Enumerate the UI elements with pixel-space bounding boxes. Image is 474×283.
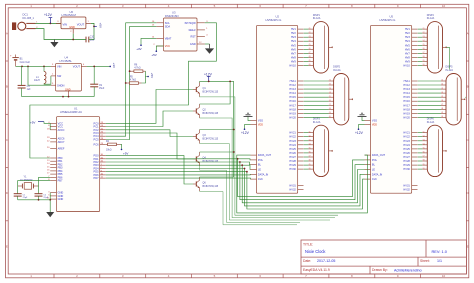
svg-text:#0: #0 xyxy=(309,64,311,66)
svg-text:HV2: HV2 xyxy=(405,31,411,35)
wire: GND pins bridge xyxy=(49,193,51,199)
svg-text:VOUT: VOUT xyxy=(73,65,81,69)
wire: Q1 emitter into anode lane xyxy=(200,97,338,216)
svg-text:VSS: VSS xyxy=(258,119,263,123)
svg-text:HV7: HV7 xyxy=(291,51,297,55)
svg-text:#1: #1 xyxy=(423,131,425,133)
svg-text:#3: #3 xyxy=(441,88,443,90)
svg-text:HV6: HV6 xyxy=(405,47,411,51)
svg-text:10uH: 10uH xyxy=(34,79,40,82)
svg-text:+12V: +12V xyxy=(241,131,250,135)
wire: U3 VCC to +5V flag xyxy=(156,46,163,51)
svg-text:#9: #9 xyxy=(441,112,443,114)
svg-text:#6: #6 xyxy=(329,100,331,102)
svg-text:PD7: PD7 xyxy=(94,176,100,180)
svg-text:#4: #4 xyxy=(309,40,311,42)
wire: base riser PC1 to Q2 xyxy=(106,111,193,127)
svg-text:AchilleMerendino: AchilleMerendino xyxy=(394,268,422,272)
svg-text:#5: #5 xyxy=(423,44,425,46)
svg-text:#2: #2 xyxy=(309,135,311,137)
svg-text:VDD: VDD xyxy=(258,124,263,127)
svg-text:#3: #3 xyxy=(329,88,331,90)
svg-text:DATA_IN: DATA_IN xyxy=(258,172,269,176)
svg-text:HV24: HV24 xyxy=(403,143,410,147)
svg-text:AREF: AREF xyxy=(58,146,65,150)
title block xyxy=(301,240,466,274)
power flag +5V at U6 output xyxy=(94,23,103,28)
svg-text:DS3231SN: DS3231SN xyxy=(165,14,179,18)
wire: HV outputs to tube cathodes xyxy=(418,29,423,65)
title block texts xyxy=(303,243,448,273)
regulator U6 L78L05ACZ xyxy=(56,10,91,34)
svg-text:HV11: HV11 xyxy=(404,79,411,83)
svg-text:+5V: +5V xyxy=(99,23,103,28)
svg-text:22pF: 22pF xyxy=(43,197,48,199)
svg-text:VCC: VCC xyxy=(165,45,170,48)
MCU U1 ATMEGA328P-AU xyxy=(47,107,106,212)
svg-text:U1: U1 xyxy=(74,107,78,111)
svg-text:SHDN: SHDN xyxy=(57,83,64,87)
svg-text:VDD: VDD xyxy=(372,124,377,127)
ground symbol (input section) xyxy=(50,40,58,48)
svg-text:U4: U4 xyxy=(65,56,69,60)
svg-text:HV23: HV23 xyxy=(403,139,410,143)
svg-text:HV22: HV22 xyxy=(403,135,410,139)
svg-text:HV10: HV10 xyxy=(289,64,296,68)
nixie tube DISP4 IN-12A xyxy=(422,14,446,73)
svg-text:HV14: HV14 xyxy=(403,91,410,95)
svg-text:A: A xyxy=(6,31,8,35)
power flag +12V at VDD xyxy=(355,128,364,134)
svg-text:GND: GND xyxy=(190,42,196,46)
svg-text:#1: #1 xyxy=(441,80,443,82)
svg-text:HV29: HV29 xyxy=(403,163,410,167)
svg-text:PC5: PC5 xyxy=(94,138,100,142)
svg-text:Sheet:: Sheet: xyxy=(420,259,430,263)
svg-text:15uF: 15uF xyxy=(99,88,105,90)
svg-text:#9: #9 xyxy=(309,164,311,166)
wire: U2 DATA_OUT chain to U5 xyxy=(237,155,368,213)
svg-text:HV13: HV13 xyxy=(403,87,410,91)
inductor L1 10uH xyxy=(34,66,51,84)
svg-text:VSS: VSS xyxy=(372,119,377,123)
svg-text:BC847CW,115: BC847CW,115 xyxy=(203,112,219,115)
svg-text:#4: #4 xyxy=(441,92,443,94)
svg-text:HV25: HV25 xyxy=(289,147,296,151)
svg-text:IN-12A: IN-12A xyxy=(446,69,454,72)
nixie tube DISP1 IN-12A xyxy=(308,14,332,73)
svg-text:2017-12-05: 2017-12-05 xyxy=(317,259,335,263)
power flag +3V at VBAT xyxy=(136,44,142,50)
svg-text:32kHz: 32kHz xyxy=(188,28,196,32)
capacitor C9 15uF xyxy=(90,66,105,96)
svg-text:#5: #5 xyxy=(441,96,443,98)
svg-text:+5V: +5V xyxy=(150,73,154,78)
wire: rail branch to Q4 collector xyxy=(200,151,234,153)
svg-text:HV13: HV13 xyxy=(289,87,296,91)
svg-text:HV4: HV4 xyxy=(405,39,411,43)
svg-text:#8: #8 xyxy=(309,56,311,58)
svg-text:HV1: HV1 xyxy=(405,27,411,31)
svg-text:POL: POL xyxy=(372,158,378,162)
transistor Q1 BC847CW xyxy=(193,83,219,97)
svg-text:Drawn By:: Drawn By: xyxy=(372,268,388,272)
crystal Y1 16.384MHz xyxy=(18,176,39,190)
svg-text:#5: #5 xyxy=(309,148,311,150)
svg-text:HV5622PJ-G: HV5622PJ-G xyxy=(266,18,282,22)
svg-text:SDA: SDA xyxy=(165,24,171,28)
svg-text:DATA_IN: DATA_IN xyxy=(372,172,383,176)
svg-text:HV14: HV14 xyxy=(289,91,296,95)
svg-text:DATA_OUT: DATA_OUT xyxy=(372,153,386,157)
nixie tube DISP6 IN-12A xyxy=(422,117,446,176)
capacitor C1 22pF xyxy=(14,186,28,200)
svg-text:SW: SW xyxy=(57,74,62,78)
svg-text:HV32: HV32 xyxy=(289,187,296,191)
svg-text:#2: #2 xyxy=(329,84,331,86)
transistor Q6 BC847CW xyxy=(193,177,219,191)
svg-text:#0: #0 xyxy=(441,116,443,118)
svg-text:BC847CW,115: BC847CW,115 xyxy=(203,160,219,163)
svg-text:HV28: HV28 xyxy=(403,159,410,163)
svg-text:#7: #7 xyxy=(309,156,311,158)
svg-text:REV: 1.0: REV: 1.0 xyxy=(432,249,448,254)
svg-text:E: E xyxy=(6,244,8,248)
svg-text:#2: #2 xyxy=(423,32,425,34)
ground symbol at VSS xyxy=(358,113,367,120)
svg-text:HV9: HV9 xyxy=(291,60,297,64)
svg-text:DATA_OUT: DATA_OUT xyxy=(258,153,272,157)
svg-text:L78L05ACZ: L78L05ACZ xyxy=(62,13,77,17)
svg-text:HV27: HV27 xyxy=(289,155,296,159)
resistor R5 4.7k xyxy=(125,75,142,84)
wire: Q6 emitter into anode lane xyxy=(200,191,297,225)
svg-text:VOUT: VOUT xyxy=(77,22,85,26)
power flag +3V at boost output xyxy=(109,63,116,68)
svg-text:C10: C10 xyxy=(90,36,95,38)
svg-text:#3: #3 xyxy=(309,140,311,142)
node: +12V junction xyxy=(50,23,52,25)
svg-text:HV18: HV18 xyxy=(289,107,296,111)
svg-text:10uF: 10uF xyxy=(90,40,96,42)
wire: R4 to +5V xyxy=(121,144,122,149)
svg-text:#2: #2 xyxy=(423,135,425,137)
wire: base riser PC2 to Q3 xyxy=(106,130,193,137)
svg-text:HV28: HV28 xyxy=(289,159,296,163)
svg-text:#0: #0 xyxy=(423,64,425,66)
wire: base riser PC3 to Q4 xyxy=(106,133,193,159)
wire: crystal to PB7 xyxy=(18,181,51,186)
node: VOUT junction xyxy=(93,26,95,28)
svg-text:#1: #1 xyxy=(309,28,311,30)
svg-text:4.7kΩ: 4.7kΩ xyxy=(134,67,141,70)
svg-text:HV12: HV12 xyxy=(403,83,410,87)
svg-text:E: E xyxy=(467,244,469,248)
svg-text:HV31: HV31 xyxy=(289,183,296,187)
svg-text:HV24: HV24 xyxy=(289,143,296,147)
svg-text:PB7: PB7 xyxy=(58,179,63,183)
power flag +5V at pullups xyxy=(147,73,154,78)
svg-text:B: B xyxy=(467,85,469,89)
svg-text:#3: #3 xyxy=(423,36,425,38)
wire: U4 VOUT to +3V flag xyxy=(87,65,110,67)
svg-text:#6: #6 xyxy=(423,152,425,154)
transistor Q3 BC847CW xyxy=(193,130,219,144)
wire: +12V collector rail xyxy=(200,80,234,82)
wire: SDA net xyxy=(106,26,157,139)
svg-text:GND: GND xyxy=(65,88,71,91)
svg-text:VIN: VIN xyxy=(57,65,61,69)
svg-text:HV2: HV2 xyxy=(291,31,297,35)
nixie tube DISP2 IN-12A xyxy=(329,66,353,125)
svg-text:4.7kΩ: 4.7kΩ xyxy=(130,79,137,82)
svg-text:HV8: HV8 xyxy=(291,55,297,59)
svg-text:#5: #5 xyxy=(423,148,425,150)
power flag +12V at VDD xyxy=(241,128,250,134)
wire: rail branch to Q2 collector xyxy=(200,81,231,104)
svg-text:Date:: Date: xyxy=(303,259,311,263)
ground symbol below MCU xyxy=(46,212,54,217)
svg-text:HV31: HV31 xyxy=(403,183,410,187)
wire: HV outputs to tube cathodes xyxy=(304,81,329,117)
svg-text:#2: #2 xyxy=(441,84,443,86)
svg-text:HV15: HV15 xyxy=(403,95,410,99)
wire: data bundle lanes to U5 control pins xyxy=(238,159,365,209)
svg-text:1/1: 1/1 xyxy=(437,259,442,263)
svg-text:#6: #6 xyxy=(441,100,443,102)
svg-text:IN-12A: IN-12A xyxy=(427,17,435,20)
wire: HV outputs to tube cathodes xyxy=(418,133,423,169)
svg-text:#1: #1 xyxy=(309,131,311,133)
wire: DISP5 anode stub extension xyxy=(465,96,466,98)
wire: pullups join to +5V xyxy=(146,71,148,76)
svg-text:AVCC: AVCC xyxy=(58,128,65,132)
connector DC1 DC-005 barrel jack xyxy=(12,13,38,31)
svg-text:+3V: +3V xyxy=(112,63,116,68)
svg-text:#0: #0 xyxy=(309,168,311,170)
svg-text:HV5: HV5 xyxy=(291,43,297,47)
svg-text:HV19: HV19 xyxy=(289,111,296,115)
svg-text:B: B xyxy=(6,85,8,89)
capacitor C2 22pF xyxy=(35,186,49,200)
svg-text:IN-12A: IN-12A xyxy=(313,17,321,20)
wire: Q4 emitter into anode lane xyxy=(200,166,300,222)
svg-text:HV20: HV20 xyxy=(289,115,296,119)
svg-text:#5: #5 xyxy=(329,96,331,98)
svg-text:HV5622PJ-G: HV5622PJ-G xyxy=(380,18,396,22)
svg-text:LTC3525L: LTC3525L xyxy=(60,59,73,63)
svg-text:#0: #0 xyxy=(329,116,331,118)
wire: DC jack to U6 VIN xyxy=(36,22,62,24)
power flag +5V at MCU VCC xyxy=(30,121,44,125)
svg-text:VBAT: VBAT xyxy=(165,36,172,40)
boost converter U4 LTC3525L xyxy=(51,56,87,97)
svg-text:DC-005_1: DC-005_1 xyxy=(23,17,35,20)
HV driver U2 HV5622PJ-G xyxy=(251,15,304,194)
resistor R4 10k xyxy=(106,141,121,152)
svg-text:ATMEGA328P-AU: ATMEGA328P-AU xyxy=(60,110,82,114)
svg-text:HV10: HV10 xyxy=(403,64,410,68)
svg-text:EasyEDA V4.11.9: EasyEDA V4.11.9 xyxy=(303,268,330,272)
svg-text:HV21: HV21 xyxy=(289,131,296,135)
wire: HV outputs to tube cathodes xyxy=(304,29,309,65)
svg-text:HV30: HV30 xyxy=(289,167,296,171)
svg-text:+12V: +12V xyxy=(44,13,53,17)
svg-text:22pF: 22pF xyxy=(23,197,28,199)
RTC U3 DS3231SN xyxy=(152,11,208,51)
wire: +5V to VCC pins xyxy=(44,122,50,124)
svg-text:HV19: HV19 xyxy=(403,111,410,115)
svg-text:1uF: 1uF xyxy=(27,89,32,91)
svg-text:U3: U3 xyxy=(172,11,176,15)
svg-text:GND: GND xyxy=(69,26,75,29)
wire: rail branch to Q3 collector xyxy=(200,129,234,131)
svg-text:#1: #1 xyxy=(423,28,425,30)
svg-text:LE: LE xyxy=(372,168,375,172)
transistor Q4 BC847CW xyxy=(193,152,219,166)
wire: crystal caps ground run xyxy=(18,199,51,201)
wire: data lines MCU PD1-PD7 to U2 control pins xyxy=(106,159,251,179)
svg-text:A: A xyxy=(467,31,469,35)
svg-text:HV15: HV15 xyxy=(289,95,296,99)
svg-text:#8: #8 xyxy=(441,108,443,110)
power flag +12V (input) xyxy=(44,13,53,23)
wire: DISP4 anode hook xyxy=(447,47,450,69)
svg-text:#8: #8 xyxy=(309,160,311,162)
svg-text:HV26: HV26 xyxy=(403,151,410,155)
svg-text:#3: #3 xyxy=(423,140,425,142)
svg-text:#2: #2 xyxy=(309,32,311,34)
svg-text:#6: #6 xyxy=(423,48,425,50)
svg-text:INT/SQW: INT/SQW xyxy=(185,21,197,25)
svg-text:ADC7: ADC7 xyxy=(58,140,65,144)
capacitor C4 1uF xyxy=(18,66,32,96)
svg-text:#8: #8 xyxy=(423,160,425,162)
wire: battery to U4 VIN xyxy=(16,65,51,67)
svg-text:HV12: HV12 xyxy=(289,83,296,87)
svg-text:#7: #7 xyxy=(423,156,425,158)
wire: boost ground run xyxy=(22,96,95,98)
battery B1 Coin Cell xyxy=(10,55,30,67)
svg-text:10: 10 xyxy=(442,4,446,8)
svg-text:HV20: HV20 xyxy=(403,115,410,119)
svg-text:CLK: CLK xyxy=(258,177,263,181)
HV driver U5 HV5622PJ-G xyxy=(365,15,418,194)
svg-text:#1: #1 xyxy=(329,80,331,82)
wire: ground run from jack through C10 xyxy=(36,29,87,40)
svg-text:HV23: HV23 xyxy=(289,139,296,143)
svg-text:HV25: HV25 xyxy=(403,147,410,151)
svg-text:+5V: +5V xyxy=(151,53,156,57)
svg-text:#7: #7 xyxy=(441,104,443,106)
ground symbol at VSS xyxy=(244,113,253,120)
svg-text:HV21: HV21 xyxy=(403,131,410,135)
svg-text:HV17: HV17 xyxy=(403,103,410,107)
svg-text:HV16: HV16 xyxy=(403,99,410,103)
svg-text:+12V: +12V xyxy=(355,131,364,135)
svg-text:HV7: HV7 xyxy=(405,51,411,55)
wire: HV outputs to tube cathodes xyxy=(418,81,441,117)
nixie tube DISP5 IN-12A xyxy=(441,66,465,125)
svg-text:IN-12A: IN-12A xyxy=(333,69,341,72)
svg-text:HV4: HV4 xyxy=(291,39,297,43)
svg-text:HV8: HV8 xyxy=(405,55,411,59)
svg-text:#3: #3 xyxy=(309,36,311,38)
svg-text:SCL: SCL xyxy=(165,21,171,25)
svg-text:HV3: HV3 xyxy=(291,35,297,39)
svg-text:#6: #6 xyxy=(309,152,311,154)
transistor Q2 BC847CW xyxy=(193,104,219,118)
svg-text:HV6: HV6 xyxy=(291,47,297,51)
svg-text:#7: #7 xyxy=(329,104,331,106)
svg-text:10kΩ: 10kΩ xyxy=(106,150,112,152)
svg-text:#7: #7 xyxy=(423,52,425,54)
svg-text:BC847CW,115: BC847CW,115 xyxy=(203,90,219,93)
svg-text:HV29: HV29 xyxy=(289,163,296,167)
power flag +5V at U3 VCC xyxy=(151,50,157,56)
svg-text:#8: #8 xyxy=(329,108,331,110)
svg-text:PC6: PC6 xyxy=(94,142,100,146)
svg-text:#9: #9 xyxy=(329,112,331,114)
wire: SCL net xyxy=(106,23,157,136)
svg-text:+5V: +5V xyxy=(123,151,128,155)
svg-text:POL: POL xyxy=(258,158,264,162)
svg-text:HV3: HV3 xyxy=(405,35,411,39)
nixie tube DISP3 IN-12A xyxy=(308,117,332,176)
wire: SHDN tie to VIN xyxy=(28,66,51,85)
svg-text:HV26: HV26 xyxy=(289,151,296,155)
svg-text:VIN: VIN xyxy=(63,22,68,26)
svg-text:HV22: HV22 xyxy=(289,135,296,139)
svg-text:BC847CW,115: BC847CW,115 xyxy=(203,185,219,188)
svg-text:HV16: HV16 xyxy=(289,99,296,103)
wire: HV outputs to tube cathodes xyxy=(304,133,309,169)
svg-text:HV17: HV17 xyxy=(289,103,296,107)
svg-text:+12V: +12V xyxy=(204,72,213,76)
wire: crystal to PB6 xyxy=(39,177,51,186)
svg-text:Coin Cell: Coin Cell xyxy=(20,61,31,64)
svg-text:LE: LE xyxy=(258,168,261,172)
svg-text:10: 10 xyxy=(442,274,446,278)
wire: U6 VOUT to +5V flag and C10 xyxy=(91,23,94,39)
wire: U6 GND pin down xyxy=(72,34,74,40)
wire: VDD to +12V flag xyxy=(245,125,251,129)
svg-text:U5: U5 xyxy=(390,15,394,19)
svg-text:#0: #0 xyxy=(423,168,425,170)
wire: rail branch to Q6 collector xyxy=(200,176,234,178)
wire: U3 VBAT to +3V flag xyxy=(141,38,156,44)
wire: Q3 emitter into anode lane xyxy=(200,144,330,221)
svg-text:IN-12A: IN-12A xyxy=(313,121,321,124)
wire: base riser PC0 to Q1 xyxy=(106,90,193,124)
svg-text:#9: #9 xyxy=(309,60,311,62)
node: data bundle junctions xyxy=(237,158,248,173)
svg-text:#9: #9 xyxy=(423,60,425,62)
svg-text:RST: RST xyxy=(191,34,197,38)
svg-text:#4: #4 xyxy=(329,92,331,94)
svg-text:BC847CW,115: BC847CW,115 xyxy=(203,137,219,140)
svg-text:Nixie Clock: Nixie Clock xyxy=(305,249,326,254)
svg-text:HV11: HV11 xyxy=(290,79,297,83)
capacitor C10 10uF xyxy=(86,36,96,42)
svg-text:HV18: HV18 xyxy=(403,107,410,111)
wire: U3 INT/SQW long run to MCU PB0 xyxy=(30,23,217,158)
svg-text:#4: #4 xyxy=(423,144,425,146)
power flag +5V at reset pullup xyxy=(121,149,129,156)
svg-text:+5V: +5V xyxy=(30,121,35,125)
wire: base riser PD0 to Q6 xyxy=(106,156,193,184)
wire: Q2 emitter into anode lane xyxy=(200,118,335,218)
